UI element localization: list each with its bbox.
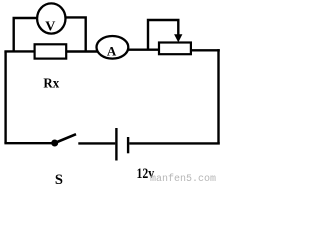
wire: left vertical main xyxy=(4,51,6,143)
wire: voltmeter right branch xyxy=(65,17,86,51)
wire: switch to battery xyxy=(78,142,115,144)
voltmeter V (circle) xyxy=(37,3,65,33)
wire: rheostat wiper loop xyxy=(148,20,178,50)
wire: top left horizontal (node to Rx) xyxy=(4,50,35,52)
wire: ammeter to rheostat xyxy=(128,49,161,51)
ammeter A (ellipse) xyxy=(97,36,129,59)
arrowhead of wiper xyxy=(174,34,182,42)
resistor Rx (box) xyxy=(35,44,67,58)
svg-text:A: A xyxy=(107,44,117,59)
svg-text:Rx: Rx xyxy=(43,76,59,91)
rheostat (box) xyxy=(159,43,191,55)
wire: right vertical main xyxy=(217,49,219,143)
wire: rheostat to right corner xyxy=(190,49,220,51)
svg-text:manfen5.com: manfen5.com xyxy=(150,173,216,184)
wire: bottom left (corner to switch) xyxy=(4,142,52,144)
wire: battery to right corner xyxy=(129,142,220,144)
switch S xyxy=(51,134,76,146)
wire: voltmeter left branch xyxy=(14,18,38,51)
svg-text:S: S xyxy=(55,172,63,184)
svg-text:V: V xyxy=(45,20,55,35)
battery 12v xyxy=(116,128,128,161)
wire: Rx to ammeter xyxy=(66,50,99,52)
